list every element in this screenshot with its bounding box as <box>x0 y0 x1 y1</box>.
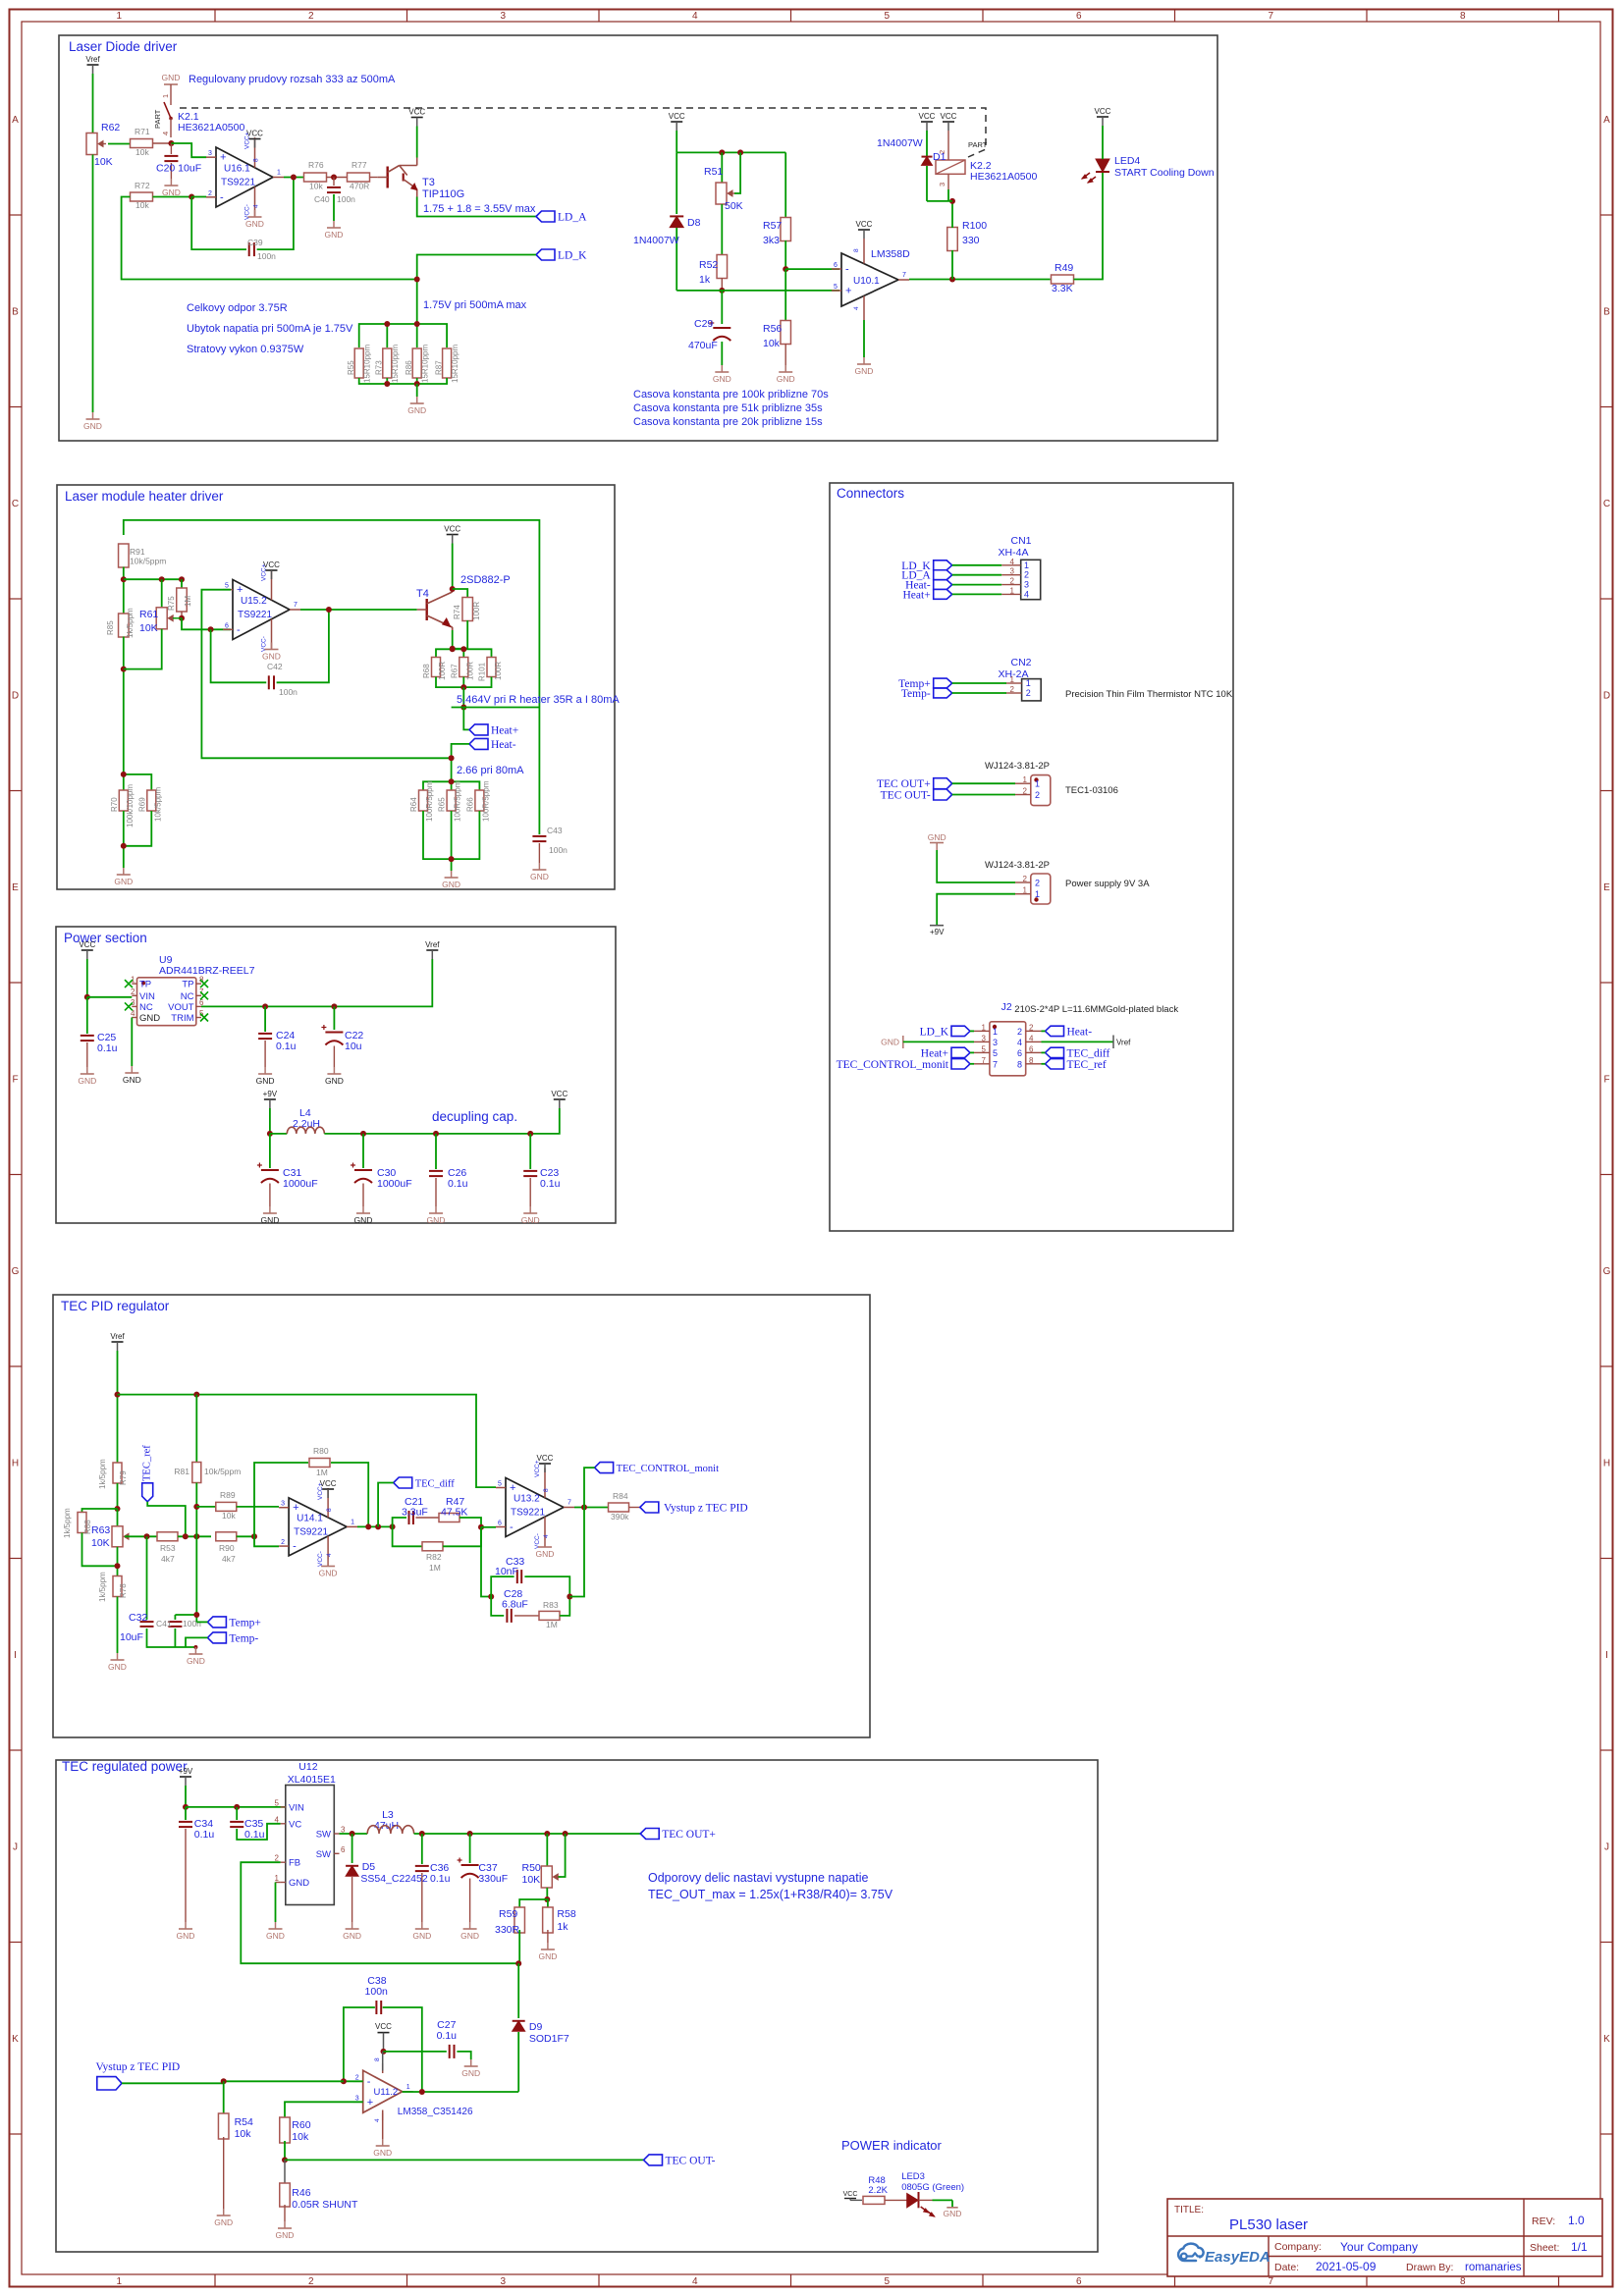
svg-text:TS9221: TS9221 <box>221 178 255 188</box>
svg-text:SOD1F7: SOD1F7 <box>529 2033 569 2045</box>
svg-text:4: 4 <box>1010 558 1015 566</box>
svg-text:1: 1 <box>1010 586 1015 595</box>
resistor R66 <box>475 790 484 811</box>
svg-text:0805G (Green): 0805G (Green) <box>901 2182 964 2193</box>
svg-text:D: D <box>1603 690 1610 701</box>
svg-text:4: 4 <box>853 306 860 310</box>
svg-text:-: - <box>845 264 849 276</box>
net flag Heat+ to J2 pin5 <box>951 1047 970 1057</box>
ground under U11.2 <box>382 2113 384 2140</box>
ground under U10.1 <box>863 320 865 357</box>
svg-text:VCC: VCC <box>1095 107 1111 116</box>
svg-text:1M: 1M <box>429 1563 441 1573</box>
ground under resistor bank <box>416 397 418 403</box>
svg-text:LD_A: LD_A <box>558 212 587 224</box>
net flag TEC_diff <box>394 1477 412 1488</box>
svg-text:4: 4 <box>692 2276 698 2287</box>
svg-text:VCC: VCC <box>919 112 936 121</box>
capacitor C28 <box>491 1597 504 1616</box>
svg-text:GND: GND <box>83 421 102 431</box>
svg-text:3: 3 <box>993 1038 998 1047</box>
net flag Heat+ to CN1 <box>934 589 952 599</box>
svg-text:10K: 10K <box>91 1537 110 1549</box>
ground under C31 <box>269 1206 271 1213</box>
svg-text:10k: 10k <box>292 2131 309 2143</box>
resistor R82 parallel <box>393 1526 422 1546</box>
svg-text:2: 2 <box>1035 790 1040 800</box>
svg-text:10k: 10k <box>135 200 149 210</box>
svg-text:GND: GND <box>855 366 874 376</box>
net flag TEC OUT- <box>285 2159 644 2161</box>
svg-text:H: H <box>1603 1458 1610 1468</box>
net flag Temp+ to CN2 <box>934 678 952 688</box>
net flag TEC OUT+ <box>640 1829 659 1840</box>
svg-text:1: 1 <box>116 11 122 22</box>
svg-text:3k3: 3k3 <box>763 235 780 246</box>
potentiometer R51 <box>721 152 723 184</box>
ground under C36 <box>421 1922 423 1929</box>
net flag TEC_diff from J2 pin6 <box>1046 1047 1064 1057</box>
svg-text:2: 2 <box>1024 570 1029 580</box>
EasyEDA logo <box>1178 2244 1271 2266</box>
svg-text:R55: R55 <box>347 360 355 375</box>
svg-text:romanaries: romanaries <box>1465 2262 1522 2273</box>
wire bank to heat node <box>462 687 464 707</box>
wire R51 wiper up to rail <box>734 152 740 193</box>
svg-text:A: A <box>1603 115 1610 126</box>
svg-text:1k: 1k <box>557 1921 568 1933</box>
svg-text:470uF: 470uF <box>688 340 718 351</box>
svg-text:Vref: Vref <box>85 55 100 64</box>
svg-text:GND: GND <box>78 1076 96 1086</box>
svg-text:GND: GND <box>373 2148 392 2158</box>
svg-text:TEC_ref: TEC_ref <box>142 1445 153 1481</box>
svg-text:210S-2*4P L=11.6MMGold-plated: 210S-2*4P L=11.6MMGold-plated black <box>1014 1004 1178 1015</box>
svg-text:LD_K: LD_K <box>920 1026 949 1038</box>
net flag LD_A to CN1 <box>934 570 952 580</box>
svg-text:R72: R72 <box>135 181 150 190</box>
svg-text:GND: GND <box>162 187 181 197</box>
svg-text:100R: 100R <box>472 602 481 620</box>
svg-text:VOUT: VOUT <box>168 1002 194 1013</box>
svg-text:1: 1 <box>1026 678 1031 688</box>
svg-text:8: 8 <box>1017 1059 1022 1069</box>
capacitor C24 <box>264 1006 266 1032</box>
ground right of LED3 <box>946 2207 957 2209</box>
svg-text:PART: PART <box>153 109 162 129</box>
svg-text:Heat+: Heat+ <box>921 1047 948 1059</box>
svg-text:1: 1 <box>1035 779 1040 789</box>
net flag LD_K <box>536 249 555 260</box>
resistor R85 <box>119 614 130 637</box>
wire + input to heater return <box>201 590 451 759</box>
capacitor C43 <box>538 708 540 835</box>
left bank bottom rail <box>124 811 152 846</box>
svg-text:R61: R61 <box>139 609 158 620</box>
capacitor C26 <box>435 1134 437 1169</box>
svg-text:5: 5 <box>884 2276 890 2287</box>
svg-text:R90: R90 <box>219 1543 235 1553</box>
R63 wiper row to R53 <box>125 1535 158 1537</box>
svg-text:C40: C40 <box>314 194 330 204</box>
svg-text:GND: GND <box>928 832 946 842</box>
svg-text:7: 7 <box>902 272 906 279</box>
svg-text:R74: R74 <box>453 605 461 619</box>
svg-text:100k/10ppm: 100k/10ppm <box>126 784 135 828</box>
svg-text:10k: 10k <box>222 1511 236 1521</box>
wire U14.1 output <box>357 1525 393 1527</box>
svg-text:SS54_C22452: SS54_C22452 <box>360 1873 427 1885</box>
svg-text:10K: 10K <box>94 156 113 168</box>
ground under left bank <box>123 868 125 875</box>
resistor R49 <box>1052 275 1074 284</box>
svg-text:CN1: CN1 <box>1010 535 1031 547</box>
svg-text:D8: D8 <box>687 217 701 229</box>
svg-text:GND: GND <box>407 405 426 415</box>
wire bank to ground <box>416 384 418 397</box>
svg-text:Company:: Company: <box>1274 2241 1322 2253</box>
svg-text:VCC: VCC <box>843 2191 858 2198</box>
svg-text:4: 4 <box>374 2118 381 2122</box>
wire R62 to GND <box>92 155 94 413</box>
svg-text:decupling cap.: decupling cap. <box>432 1109 517 1124</box>
resistor R75 <box>181 579 183 589</box>
wire Heat- to return rail <box>452 744 469 779</box>
ground under U12 <box>275 1922 277 1929</box>
svg-text:GND: GND <box>276 2230 295 2240</box>
svg-text:C43: C43 <box>547 826 563 835</box>
svg-text:1: 1 <box>351 1519 354 1525</box>
svg-text:Regulovany prudovy rozsah 333: Regulovany prudovy rozsah 333 az 500mA <box>189 74 396 85</box>
svg-text:+: + <box>510 1482 515 1494</box>
svg-text:7: 7 <box>982 1056 987 1065</box>
svg-text:R59: R59 <box>499 1908 517 1920</box>
svg-text:0.1u: 0.1u <box>244 1829 265 1841</box>
no-connect X marks U9 <box>125 980 133 988</box>
svg-text:7: 7 <box>1268 2276 1273 2287</box>
left bank R70/R69 top rail <box>124 774 152 790</box>
wire opamp output to T4 base <box>300 609 417 611</box>
svg-text:1.0: 1.0 <box>1568 2214 1585 2227</box>
resistor R58 <box>546 1899 549 1908</box>
svg-text:START Cooling Down: START Cooling Down <box>1114 167 1215 179</box>
svg-text:TEC regulated power: TEC regulated power <box>62 1759 188 1774</box>
net flag TEC OUT- <box>934 789 952 800</box>
svg-text:T4: T4 <box>416 588 429 600</box>
wire feedback to output <box>569 1508 584 1597</box>
svg-text:GND: GND <box>442 880 460 889</box>
capacitor C37 <box>469 1834 471 1863</box>
LED LED4 <box>1096 159 1109 172</box>
svg-text:T3: T3 <box>422 177 435 188</box>
svg-text:6: 6 <box>1076 11 1082 22</box>
svg-text:0.1u: 0.1u <box>276 1041 297 1052</box>
svg-text:10k/5ppm: 10k/5ppm <box>130 557 166 566</box>
capacitor C22 <box>333 1006 335 1030</box>
svg-text:R100: R100 <box>962 220 987 232</box>
svg-text:R46: R46 <box>292 2187 310 2199</box>
svg-text:C: C <box>12 499 19 509</box>
wire Vref down <box>117 1351 119 1463</box>
svg-text:VIN: VIN <box>139 991 155 1002</box>
svg-text:1k/5ppm: 1k/5ppm <box>98 1459 107 1489</box>
svg-text:GND: GND <box>536 1549 555 1559</box>
svg-text:I: I <box>14 1650 17 1661</box>
wire VCC to top rail <box>676 131 677 152</box>
svg-text:TS9221: TS9221 <box>238 610 272 620</box>
resistor R87 <box>443 348 452 378</box>
svg-text:Power section: Power section <box>64 931 147 945</box>
resistor bank bottom rail <box>359 378 447 384</box>
svg-text:1k: 1k <box>699 274 711 286</box>
svg-text:GND: GND <box>521 1215 540 1225</box>
wire R62 wiper to R71 <box>108 143 131 145</box>
capacitor C31 <box>269 1134 271 1168</box>
svg-text:Vref: Vref <box>1116 1039 1131 1047</box>
power flag Vref from J2 pin4 <box>1042 1041 1114 1042</box>
svg-text:100n: 100n <box>257 251 276 261</box>
svg-text:Vystup z TEC PID: Vystup z TEC PID <box>664 1503 748 1515</box>
svg-text:3: 3 <box>1010 567 1015 576</box>
svg-text:2: 2 <box>131 988 135 996</box>
ground under C23 <box>529 1206 531 1213</box>
resistor R55 <box>354 348 363 378</box>
resistor R57 <box>784 152 786 218</box>
svg-text:R52: R52 <box>699 259 718 271</box>
svg-text:Vref: Vref <box>110 1332 125 1341</box>
svg-text:Temp-: Temp- <box>901 688 931 700</box>
svg-text:1: 1 <box>131 976 135 985</box>
svg-text:R82: R82 <box>426 1552 442 1562</box>
svg-text:2.2K: 2.2K <box>868 2185 888 2196</box>
svg-text:5: 5 <box>884 11 890 22</box>
wire GND to power connector pin2 <box>937 850 1015 882</box>
svg-text:1k/5ppm: 1k/5ppm <box>63 1508 72 1538</box>
svg-text:R68: R68 <box>422 664 431 678</box>
svg-text:R81: R81 <box>174 1467 189 1476</box>
svg-text:TEC OUT-: TEC OUT- <box>881 790 931 802</box>
lower bank R64/R65/R66 top rail <box>423 781 479 790</box>
wire R48 to LED3 <box>885 2199 907 2201</box>
svg-text:VCC: VCC <box>408 108 425 117</box>
wire R49 to LED4 <box>1074 173 1104 280</box>
svg-text:4: 4 <box>161 132 170 135</box>
svg-text:ADR441BRZ-REEL7: ADR441BRZ-REEL7 <box>159 965 255 977</box>
svg-text:8: 8 <box>326 1508 333 1512</box>
svg-text:K: K <box>12 2034 19 2045</box>
svg-text:470R: 470R <box>350 182 369 191</box>
svg-text:5.464V pri R heater 35R a I 80: 5.464V pri R heater 35R a I 80mA <box>457 694 620 706</box>
wire R85 to lower junction <box>123 637 125 774</box>
svg-text:GND: GND <box>319 1569 338 1578</box>
svg-text:C32: C32 <box>129 1612 147 1624</box>
svg-text:-: - <box>237 624 241 636</box>
svg-text:C29: C29 <box>694 318 713 330</box>
svg-text:100R/5ppm: 100R/5ppm <box>454 780 462 822</box>
potentiometer R62 <box>86 133 97 155</box>
svg-text:10K: 10K <box>139 622 158 634</box>
svg-text:SW: SW <box>316 1849 331 1860</box>
svg-text:NC: NC <box>181 991 194 1002</box>
svg-text:+9V: +9V <box>930 928 945 936</box>
svg-text:VCC: VCC <box>669 112 685 121</box>
svg-text:10k: 10k <box>763 338 781 349</box>
svg-text:D1: D1 <box>933 151 946 163</box>
svg-text:3: 3 <box>500 11 506 22</box>
svg-text:1M: 1M <box>546 1620 558 1629</box>
svg-text:TEC_CONTROL_monit: TEC_CONTROL_monit <box>837 1059 949 1071</box>
svg-text:GND: GND <box>187 1656 205 1666</box>
svg-text:GND: GND <box>461 2068 480 2078</box>
node junction R71/C20/K2.1/opamp input <box>168 140 174 146</box>
svg-text:R58: R58 <box>557 1908 575 1920</box>
svg-text:4: 4 <box>1024 589 1029 599</box>
feedback network C33/C28/R83 <box>481 1527 491 1597</box>
svg-text:POWER indicator: POWER indicator <box>841 2138 943 2153</box>
svg-text:10k/5ppm: 10k/5ppm <box>154 787 163 822</box>
svg-text:3: 3 <box>355 2095 359 2102</box>
svg-text:LED4: LED4 <box>1114 155 1140 167</box>
svg-text:4: 4 <box>1029 1034 1034 1042</box>
potentiometer R63 <box>117 1509 119 1526</box>
resistor R48 <box>863 2196 885 2204</box>
LED LED3 0805G <box>907 2194 918 2208</box>
svg-text:Ubytok napatia pri 500mA je 1.: Ubytok napatia pri 500mA je 1.75V <box>187 323 353 335</box>
svg-text:GND: GND <box>214 2217 233 2227</box>
capacitor C41 <box>174 1615 176 1620</box>
svg-text:1.75 + 1.8 = 3.55V max: 1.75 + 1.8 = 3.55V max <box>423 203 536 215</box>
bottom rail to opamp + input <box>676 290 839 292</box>
svg-text:NC: NC <box>139 1002 153 1013</box>
net flag TEC_CONTROL_monit to J2 pin7 <box>951 1059 970 1069</box>
wire R78 to ground <box>117 1597 119 1654</box>
resistor R86 <box>412 348 421 378</box>
svg-text:J2: J2 <box>1001 1001 1012 1013</box>
capacitor C20 <box>170 143 172 154</box>
svg-text:Your Company: Your Company <box>1340 2240 1418 2254</box>
wire VCC to T4 collector and R74 <box>452 544 454 590</box>
net flag Temp- <box>207 1632 226 1643</box>
wire VCC to T3 collector <box>416 127 418 158</box>
svg-text:1k/5ppm: 1k/5ppm <box>98 1572 107 1602</box>
capacitor C33 <box>491 1576 514 1596</box>
svg-text:+: + <box>237 584 243 596</box>
svg-text:VCC+: VCC+ <box>534 1460 541 1477</box>
resistor R77 <box>348 173 370 182</box>
wire +9V to L4 <box>269 1108 271 1134</box>
wire U12 GND pin to ground <box>276 1882 281 1884</box>
svg-text:0.05R SHUNT: 0.05R SHUNT <box>292 2199 358 2211</box>
title block frame <box>1167 2199 1602 2276</box>
svg-text:8: 8 <box>1460 2276 1466 2287</box>
svg-text:GND: GND <box>460 1931 479 1941</box>
svg-text:3.3uF: 3.3uF <box>402 1507 428 1519</box>
svg-text:VCC: VCC <box>941 112 957 121</box>
svg-text:+9V: +9V <box>263 1090 278 1098</box>
svg-text:10u: 10u <box>345 1041 362 1052</box>
op-amp U10.1 LM358D <box>841 253 898 306</box>
op-amp U16.1 <box>216 147 273 207</box>
svg-text:47.5K: 47.5K <box>441 1507 467 1519</box>
ground under C24 <box>264 1067 266 1074</box>
resistor R76 <box>304 173 327 182</box>
wire R50 wiper to rail <box>559 1834 566 1877</box>
svg-text:100R: 100R <box>466 662 475 680</box>
svg-text:+: + <box>845 286 851 297</box>
svg-text:GND: GND <box>289 1878 309 1889</box>
svg-text:330: 330 <box>962 235 980 246</box>
svg-text:R65: R65 <box>438 797 447 812</box>
transistor T4 2SD882-P <box>426 599 428 620</box>
ground under R56 <box>784 365 786 372</box>
svg-text:1.75V pri 500mA max: 1.75V pri 500mA max <box>423 299 527 311</box>
op-amp U11.2 LM358 <box>363 2070 403 2112</box>
wire U9 GND pin to ground <box>131 1018 133 1067</box>
svg-text:R50: R50 <box>522 1862 541 1874</box>
svg-text:Heat-: Heat- <box>491 739 516 751</box>
ground under U15.2 <box>271 643 273 650</box>
svg-text:100R: 100R <box>438 662 447 680</box>
svg-text:15R10ppm: 15R10ppm <box>391 345 400 383</box>
svg-text:Celkovy odpor 3.75R: Celkovy odpor 3.75R <box>187 302 288 314</box>
wire R81 down through rows <box>195 1483 197 1623</box>
svg-text:Vystup z TEC PID: Vystup z TEC PID <box>96 2061 181 2073</box>
svg-text:8: 8 <box>1029 1056 1034 1065</box>
svg-text:GND: GND <box>245 219 264 229</box>
svg-text:G: G <box>12 1266 20 1277</box>
svg-text:VCC: VCC <box>551 1090 568 1098</box>
svg-text:10k: 10k <box>135 147 149 157</box>
op-amp U14.1 <box>289 1498 347 1556</box>
svg-text:R51: R51 <box>704 166 723 178</box>
resistor R73 <box>383 348 392 378</box>
wire R72 to opamp inverting input <box>153 196 192 198</box>
svg-text:XL4015E1: XL4015E1 <box>288 1774 336 1786</box>
resistor R69 <box>147 790 156 811</box>
svg-text:CN2: CN2 <box>1010 657 1031 668</box>
svg-text:R75: R75 <box>167 596 176 611</box>
resistor R84 <box>609 1503 629 1512</box>
ground under U16.1 <box>254 210 256 217</box>
svg-text:2: 2 <box>1010 685 1015 694</box>
resistor R65 <box>447 790 456 811</box>
svg-text:1N4007W: 1N4007W <box>633 235 679 246</box>
resistor R67 <box>460 658 468 677</box>
svg-text:7: 7 <box>993 1059 998 1069</box>
svg-text:GND: GND <box>260 1215 279 1225</box>
svg-text:VCC: VCC <box>444 525 460 534</box>
capacitor C29 470uF <box>721 291 723 324</box>
section box: Connectors <box>830 483 1233 1231</box>
svg-text:100R/5ppm: 100R/5ppm <box>482 780 491 822</box>
svg-text:VCC-: VCC- <box>317 1551 324 1567</box>
svg-text:TP: TP <box>139 980 151 990</box>
svg-text:2.66 pri 80mA: 2.66 pri 80mA <box>457 765 524 776</box>
net flag Vystup z TEC PID <box>629 1507 640 1509</box>
svg-text:0.1u: 0.1u <box>194 1829 215 1841</box>
svg-text:2: 2 <box>355 2074 359 2081</box>
top rail wire <box>124 520 540 708</box>
net flag LD_A <box>536 211 555 222</box>
node R61 wiper junction <box>179 615 185 621</box>
svg-text:VCC+: VCC+ <box>244 132 251 149</box>
svg-text:R84: R84 <box>613 1491 628 1501</box>
svg-text:R63: R63 <box>91 1524 110 1536</box>
svg-text:R53: R53 <box>160 1543 176 1553</box>
svg-text:8: 8 <box>853 248 860 252</box>
svg-text:3.3K: 3.3K <box>1052 283 1073 294</box>
resistor R53 <box>157 1532 178 1541</box>
